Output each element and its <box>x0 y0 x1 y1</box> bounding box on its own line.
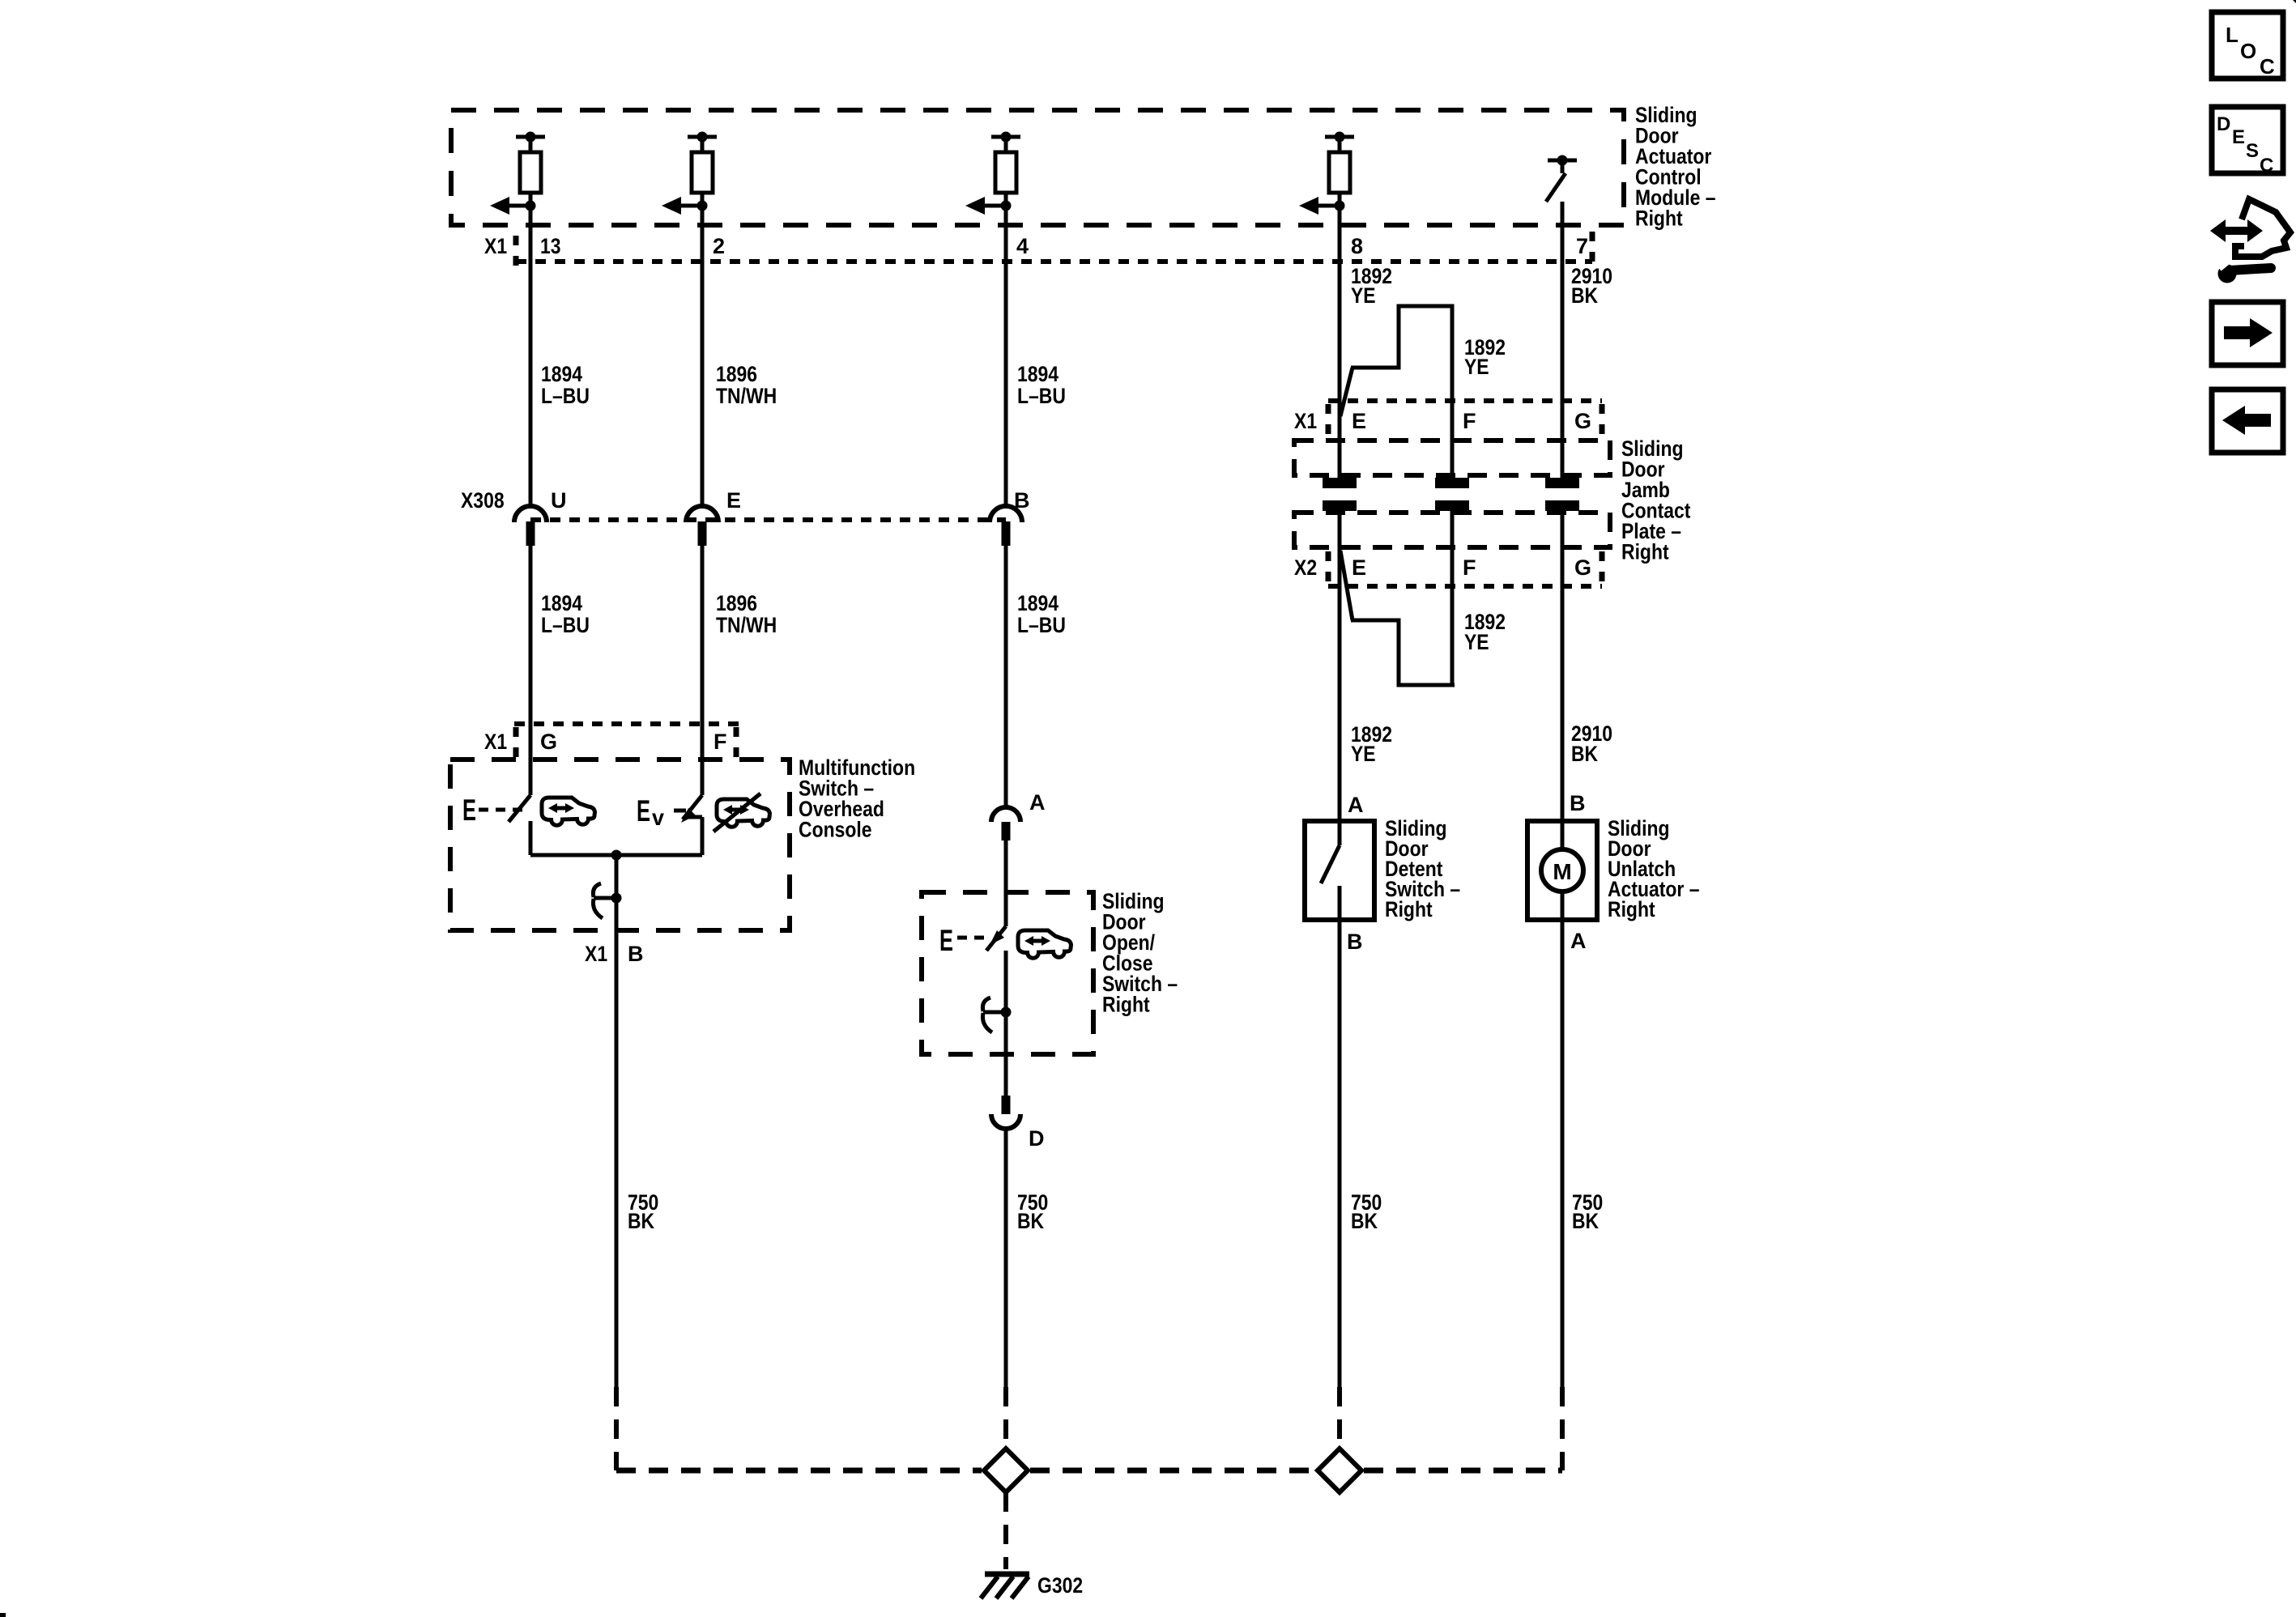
svg-text:8: 8 <box>1351 234 1363 258</box>
ground rail dashed <box>616 1468 1562 1474</box>
svg-text:L–BU: L–BU <box>1017 613 1066 637</box>
svg-text:B: B <box>628 942 644 966</box>
svg-text:E: E <box>637 794 650 828</box>
svg-text:TN/WH: TN/WH <box>716 384 777 408</box>
svg-text:X1: X1 <box>484 730 507 754</box>
wire dashed drop col 5 <box>1560 1387 1565 1470</box>
connector X1 of multifunction switch <box>514 724 739 760</box>
open/close switch S2 box: Sliding Door Open/Close Switch - Right <box>922 892 1093 1054</box>
svg-text:E: E <box>2232 126 2245 148</box>
svg-text:1894: 1894 <box>1017 591 1059 615</box>
detent switch S3 box: Sliding Door Detent Switch - Right <box>1305 821 1374 920</box>
switch S3 blade <box>1321 821 1340 920</box>
svg-text:E: E <box>462 794 476 827</box>
switch S2 blade <box>957 926 1006 951</box>
node: junction of switch commons <box>611 850 622 861</box>
wire dashed drop col 3 <box>1003 1387 1008 1449</box>
wire through actuator <box>1561 821 1565 920</box>
svg-text:BK: BK <box>1351 1209 1378 1233</box>
multifunction switch S1 box: Multifunction Switch - Overhead Console <box>450 760 790 930</box>
connector X1 of jamb contact plate <box>1328 401 1602 437</box>
svg-text:1894: 1894 <box>541 591 582 615</box>
wire 2910 BK pin7 to jamb X1-G <box>1561 202 1565 478</box>
svg-text:E: E <box>1352 555 1366 580</box>
wire 1894 L-BU pin4 to X308 B <box>1004 206 1008 507</box>
svg-text:L–BU: L–BU <box>1017 384 1066 408</box>
svg-text:C: C <box>2260 155 2273 177</box>
svg-text:v: v <box>652 805 664 830</box>
wire 1892 YE pin8 to jamb X1-E <box>1338 206 1342 478</box>
icon: car door-close (slashed) <box>714 794 770 832</box>
svg-text:Right: Right <box>1385 897 1433 921</box>
wire 2910 BK jamb X2-G to unlatch actuator <box>1561 511 1565 821</box>
contact bar pair F <box>1435 478 1469 511</box>
svg-text:F: F <box>1463 555 1476 580</box>
jamb contact plate lower half (dashed) <box>1294 513 1610 547</box>
svg-text:G: G <box>1574 409 1591 433</box>
icon: car door-open <box>542 798 595 825</box>
svg-text:YE: YE <box>1464 630 1489 654</box>
wire 1896 TN/WH pin2 to X308 E <box>701 206 705 507</box>
resistor R4 pin8 (module internal pull-up) <box>1299 132 1354 215</box>
wire dashed to ground <box>1003 1492 1008 1569</box>
svg-text:B: B <box>1347 930 1363 954</box>
svg-text:1896: 1896 <box>716 362 757 386</box>
wire dashed drop col 4 <box>1337 1387 1342 1449</box>
svg-text:M: M <box>1553 859 1571 884</box>
icon: LOC box <box>2212 12 2283 79</box>
latch symbol in open/close switch <box>982 998 1011 1032</box>
svg-text:A: A <box>1029 790 1046 815</box>
wire 1894 L-BU X308 U to multifunction switch <box>529 534 533 795</box>
wire: switch to D <box>1004 951 1008 1096</box>
svg-text:BK: BK <box>1572 1209 1600 1233</box>
svg-text:1894: 1894 <box>1017 362 1059 386</box>
svg-text:G: G <box>1574 555 1591 580</box>
wire: 1892 YE branch step to jamb X1-F <box>1340 306 1452 478</box>
contact bar pair G <box>1545 478 1579 511</box>
wire 1892 YE branch step below jamb (X2-E to X2-F) <box>1340 511 1455 687</box>
switch S1a (door open) <box>479 795 530 855</box>
connector half X308-B <box>990 506 1022 546</box>
svg-text:BK: BK <box>1571 283 1599 308</box>
svg-text:X1: X1 <box>585 942 607 966</box>
connector half X308-U <box>514 506 547 546</box>
page corner mark bottom-left <box>0 1613 6 1617</box>
svg-text:YE: YE <box>1351 283 1376 308</box>
icon: arrow right box <box>2212 302 2283 365</box>
svg-text:TN/WH: TN/WH <box>716 613 777 637</box>
jamb contact plate upper half (dashed) <box>1294 440 1610 475</box>
connector X308 rail <box>530 517 1006 522</box>
wire 750 BK from D down <box>1004 1130 1008 1387</box>
icon: arrow left box <box>2212 389 2283 453</box>
svg-text:Console: Console <box>799 818 872 842</box>
svg-text:X1: X1 <box>1294 409 1317 433</box>
resistor R1 pin13 (module internal pull-up) <box>490 132 545 215</box>
svg-text:13: 13 <box>540 234 561 258</box>
svg-text:A: A <box>1570 929 1587 953</box>
resistor R3 pin4 (module internal pull-up) <box>965 132 1020 215</box>
connector half X308-E <box>686 506 718 546</box>
svg-text:1896: 1896 <box>716 591 757 615</box>
splice node S302 (diamond) <box>984 1449 1028 1492</box>
ground G302 symbol <box>981 1574 1029 1598</box>
svg-text:1894: 1894 <box>541 362 582 386</box>
svg-text:F: F <box>1463 409 1476 433</box>
svg-text:X2: X2 <box>1294 555 1317 580</box>
svg-text:L: L <box>2226 23 2238 47</box>
icon: car repair (arrow + sketch car + wrench) <box>2210 199 2290 283</box>
icon: DESC box <box>2212 107 2283 177</box>
page corner mark <box>2293 0 2296 3</box>
svg-text:G: G <box>540 730 557 754</box>
svg-text:B: B <box>1014 488 1030 513</box>
svg-text:X308: X308 <box>461 488 505 513</box>
connector D of open/close switch <box>991 1096 1020 1129</box>
svg-text:O: O <box>2240 39 2256 63</box>
svg-text:S: S <box>2246 140 2259 162</box>
svg-text:2: 2 <box>713 234 725 258</box>
svg-text:A: A <box>1348 793 1364 817</box>
svg-text:G302: G302 <box>1037 1573 1083 1598</box>
svg-text:L–BU: L–BU <box>541 384 590 408</box>
wire 1894 L-BU pin13 to X308 U <box>529 206 533 507</box>
connector X2 of jamb contact plate <box>1328 551 1602 586</box>
svg-text:E: E <box>1352 409 1366 433</box>
svg-text:D: D <box>2217 113 2230 135</box>
svg-text:E: E <box>726 488 741 513</box>
svg-text:YE: YE <box>1351 742 1376 766</box>
connector A of open/close switch <box>991 807 1020 840</box>
splice node (diamond right) <box>1318 1449 1361 1492</box>
wire: switch commons tie <box>530 853 702 857</box>
svg-text:B: B <box>1570 791 1586 815</box>
unlatch actuator M1 box: Sliding Door Unlatch Actuator - Right <box>1527 821 1597 920</box>
wire 750 BK detent B down <box>1338 920 1342 1387</box>
svg-text:E: E <box>939 924 953 957</box>
svg-text:Right: Right <box>1635 206 1683 231</box>
wire: common down to X1 B <box>615 855 619 1387</box>
switch S1b (door close) <box>674 795 702 855</box>
switch S0 inside module at pin 7 <box>1546 155 1577 202</box>
latch symbol on common wire <box>593 883 621 918</box>
svg-text:4: 4 <box>1016 234 1029 258</box>
module U1: Sliding Door Actuator Control Module - Right (dashed outline) <box>451 110 1624 225</box>
wire A to switch <box>1004 840 1008 926</box>
contact bar pair E <box>1323 478 1357 511</box>
motor M1 symbol <box>1541 849 1583 891</box>
svg-text:BK: BK <box>1571 742 1599 766</box>
svg-text:Right: Right <box>1102 993 1150 1017</box>
icon: car open/close <box>1018 930 1071 958</box>
svg-text:7: 7 <box>1576 234 1588 258</box>
svg-text:Right: Right <box>1608 897 1655 921</box>
svg-text:BK: BK <box>1017 1209 1045 1233</box>
svg-text:X1: X1 <box>484 234 507 258</box>
svg-text:BK: BK <box>628 1209 655 1233</box>
resistor R2 pin2 (module internal pull-up) <box>662 132 717 215</box>
wire 1896 TN/WH X308 E to multifunction switch <box>701 534 705 795</box>
svg-text:L–BU: L–BU <box>541 613 590 637</box>
svg-text:F: F <box>714 730 727 754</box>
svg-text:U: U <box>551 488 567 513</box>
wire 1892 YE jamb X2-E to detent switch <box>1338 511 1342 821</box>
svg-text:D: D <box>1029 1126 1045 1151</box>
svg-text:C: C <box>2260 54 2275 79</box>
connector X1 of module (dotted rail and ticks) <box>516 232 1592 269</box>
wire 1894 L-BU X308 B to open/close switch <box>1004 534 1008 808</box>
svg-text:Right: Right <box>1621 540 1669 564</box>
wire 750 BK actuator A down <box>1561 920 1565 1387</box>
svg-text:YE: YE <box>1464 355 1489 379</box>
wire (unlabeled) dashed drop col B <box>614 1387 619 1470</box>
